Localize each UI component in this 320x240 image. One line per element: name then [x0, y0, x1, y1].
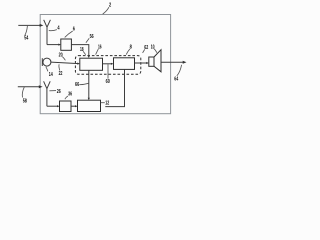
- leader for label 20: [62, 57, 65, 61]
- leader for label 16: [96, 49, 99, 55]
- wire between block 16 and block 8: [103, 63, 113, 65]
- svg-text:64: 64: [174, 77, 179, 83]
- background paper: [0, 0, 202, 120]
- leader for label 36: [65, 96, 68, 99]
- leader 60: [107, 64, 109, 78]
- antenna 4: [44, 20, 51, 45]
- svg-text:8: 8: [130, 45, 132, 51]
- leader for label 26: [49, 90, 56, 92]
- arrow 54 (incoming signal): [18, 24, 41, 26]
- svg-text:54: 54: [24, 36, 29, 42]
- leader for label 18: [83, 51, 86, 54]
- wire 66 from block 16 down to box 12: [88, 70, 90, 99]
- svg-text:2: 2: [109, 3, 111, 9]
- leader for label 2: [103, 7, 109, 14]
- wire antenna 4 to box 6: [47, 44, 60, 46]
- leader for label 4: [49, 30, 57, 31]
- svg-text:10: 10: [151, 44, 155, 50]
- leader for label 66: [79, 83, 88, 84]
- wire 56 from box 6 to block 16: [71, 45, 88, 57]
- svg-text:14: 14: [49, 72, 54, 78]
- wire antenna 26 to box 36: [47, 105, 58, 107]
- antenna 26: [44, 81, 51, 106]
- svg-text:18: 18: [80, 47, 84, 53]
- leader for label 14: [46, 67, 48, 72]
- arrow 64 (sound output): [161, 61, 184, 63]
- leader for label 22: [58, 64, 61, 70]
- block 16 (left block): [80, 58, 103, 70]
- speaker 10: [149, 57, 154, 66]
- leader for label 8: [126, 49, 130, 55]
- leader for label 10: [154, 49, 157, 53]
- leader for label 54: [25, 26, 28, 36]
- svg-text:12: 12: [105, 101, 109, 107]
- leader for label 64: [177, 65, 182, 76]
- dashed module box 18: [75, 56, 140, 75]
- svg-text:36: 36: [68, 92, 72, 98]
- wire box 36 to box 12: [71, 105, 76, 107]
- wire block 8 to speaker: [135, 62, 148, 64]
- microphone 14: [43, 58, 51, 66]
- svg-text:16: 16: [98, 45, 102, 51]
- svg-text:56: 56: [90, 34, 94, 40]
- svg-text:22: 22: [59, 71, 63, 77]
- arrow 58 (incoming signal lower): [18, 86, 40, 88]
- leader for label 62: [143, 49, 145, 53]
- svg-text:58: 58: [23, 99, 27, 105]
- block 8 (right block): [114, 58, 135, 70]
- svg-text:62: 62: [144, 45, 148, 51]
- svg-text:6: 6: [73, 27, 75, 33]
- leader for label 58: [22, 87, 24, 97]
- wire from block 8 down and left to box 12: [105, 69, 124, 106]
- wire 20 from microphone to block 16: [51, 62, 79, 64]
- svg-text:20: 20: [59, 53, 63, 59]
- label 12 with lead dash: [101, 102, 105, 104]
- device outline box 2: [40, 15, 170, 114]
- box 6 (receiver): [61, 39, 72, 50]
- box 36 (small bottom box): [60, 101, 72, 112]
- box 12 (large bottom box): [78, 100, 101, 111]
- leader for label 6: [65, 31, 73, 37]
- svg-text:66: 66: [75, 82, 79, 88]
- leader for label 56: [86, 38, 89, 42]
- svg-text:60: 60: [106, 79, 110, 85]
- svg-text:26: 26: [57, 89, 61, 95]
